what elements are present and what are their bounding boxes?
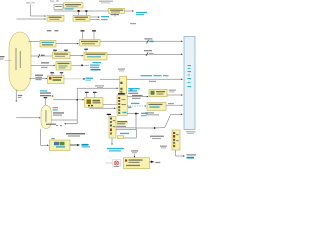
cyan bold net label right of D [82,144,89,146]
cyan text above R2 dashed wire [131,103,140,104]
stub into U2 top 2 [85,11,87,15]
tiny marks under label stub [56,125,58,126]
block D with icon [50,140,71,151]
highlighted label right of U6 [117,120,129,124]
cyan text above loop [120,133,129,134]
wire H to connector J1 [107,53,183,55]
cyan caption under U6 [107,148,124,149]
wire to connector row4 [100,78,183,80]
junction dot on diagonal branch [154,127,156,129]
wire U2 output a [91,16,100,18]
wire R2 to connector with label [166,104,183,106]
bus slash label on F wire [145,38,154,43]
block F [80,40,101,47]
dashed stub left of icon [106,162,112,164]
terminal T above F pin2 [92,30,96,39]
wire under M1 into U5 [90,107,116,109]
terminal above C pin2 [60,72,63,75]
block U3 [64,3,84,8]
block R2 [147,103,166,111]
gray text below R2 [145,112,154,113]
block G [53,52,71,59]
label under U3 [65,8,74,9]
vertical bus wire left of U5 column [76,88,78,124]
label under connector J1 [186,131,196,132]
svg-text:Sys_clk: Sys_clk [50,0,60,3]
gray text above elbow right [95,85,104,86]
small block SB2 [120,77,127,94]
wire capsule to E [29,40,40,42]
net label right of R3 wire [187,154,197,155]
net label clk_out2 [101,19,108,20]
terminal above M1 pin2 [93,92,97,98]
text below R1 wire [132,98,141,99]
wire F to connector J1 [100,40,183,42]
gray text right of R1 [169,90,176,91]
stub with arrow to stadium label [65,123,78,125]
wire U5 to R1 [127,96,148,98]
tick under U4 [114,13,116,16]
junction dot 2 [86,10,88,12]
net labels group right of I [90,62,101,70]
wire C to label [64,78,84,80]
wire U5 out right to net label [127,113,139,115]
tick down [133,154,135,158]
block M1 [85,98,104,108]
reference text above U4 [99,1,113,2]
small gray text above [130,23,136,24]
wire capsule stadium bottom to D [41,129,49,146]
long cyan net name above right wire [141,75,153,76]
gray text below label [117,126,127,127]
dashed wire U5 to R2 [127,105,146,107]
block U2 [73,15,90,21]
terminal above U6 [107,114,111,117]
vertical wire from dot down [135,114,137,130]
wire from pwr label down and right to U1 [31,5,46,17]
cyan dot right of SB2 [130,89,133,91]
svg-text:pwr_rst: pwr_rst [26,1,35,5]
wire E to F [56,43,78,45]
terminal above C pin1 [50,72,54,75]
gray text above SB2 [118,68,125,69]
cyan dashes below [41,67,48,68]
junction dot on I wire [81,64,83,66]
terminal T above F pin1 [81,30,85,39]
gray text left of R3 [150,136,164,137]
net label at bus end [136,12,147,13]
elbow wire up and right to SB2 [77,87,118,89]
stub into U2 top 1 [78,11,80,15]
block U5 tall [117,95,127,116]
wire stadium to M1 [53,99,84,101]
terminal above G pin2 [64,50,68,52]
arrow down from U6 [111,138,113,145]
loop wire from U6 right [116,128,136,130]
wire clock bus y11 [54,10,134,12]
block E [40,41,56,48]
loop down segment [118,129,137,138]
wire M1 to U5 [103,103,117,105]
branch from stadium to vertical bus [51,119,77,121]
block C [48,76,65,84]
block U4 on bus [109,8,125,13]
cyan label right of U5 [128,107,132,108]
bold arrow from D [70,144,80,146]
small label under row4 wire [149,81,156,82]
wire R1 to connector [167,94,183,96]
caption above D right [66,133,85,134]
bold arrow right of D3 [150,161,154,163]
main controller capsule X1 [9,32,31,91]
wire G to H [70,55,83,57]
block U6 tall [109,117,116,139]
component S1 box [54,5,63,10]
terminal above U5 [118,93,125,94]
junction dot at crossing with M1 wire [76,99,78,101]
dot at end of C wire [83,78,85,80]
left margin label [0,56,5,57]
tiny label right of arrow [155,162,160,163]
block H [84,52,107,60]
labels right of stadium [53,107,65,116]
label under U4 [111,14,120,15]
bus slash on row2 wire [38,54,45,58]
wire capsule to I [31,64,55,66]
text cluster above stadium [40,90,54,97]
cyan net labels right of SB2 [128,88,140,94]
wire capsule row2 [31,55,52,57]
junction dot 1 [78,10,80,12]
block R1 [149,89,167,96]
gray text above DNI icon [131,150,138,151]
cyan label right of dot [141,113,148,114]
DNI icon with red mark [113,160,121,167]
junction dot [135,113,137,115]
stadium X2 [41,105,51,128]
label right of stadium bottom [46,124,56,125]
wire I to labels [72,64,90,66]
wire into stadium left [16,117,40,119]
terminal above H [84,49,88,53]
terminal above M1 pin1 [85,92,89,98]
net label clk_out [101,16,109,17]
wire into U1 pin 2 [17,18,46,20]
text right of capsule row C [35,75,43,81]
terminal above G pin1 [53,50,57,52]
wire from R3 down and right [176,150,185,156]
bus slash label on H wire [144,50,154,56]
text above wire I [41,62,49,63]
stub from label to capsule [5,59,12,61]
small box on loop return [118,136,124,139]
block D3 [124,158,150,169]
text above R1 wire [132,95,143,96]
block U1 [47,15,64,21]
block R3 tall [172,130,180,150]
terminal above stadium X2 [44,97,48,105]
label next to vertical wire [18,95,23,96]
text above E [47,30,52,31]
wire branch from vertical to connector via diagonal [136,114,183,128]
net label Ryy.B [86,78,94,79]
tiny label above D [51,138,55,139]
connector J1 tall bar [184,37,195,130]
block I [56,62,71,71]
wire capsule to C [29,77,47,79]
wire from capsule bottom down [15,90,17,102]
wire U2 output b [91,19,100,21]
